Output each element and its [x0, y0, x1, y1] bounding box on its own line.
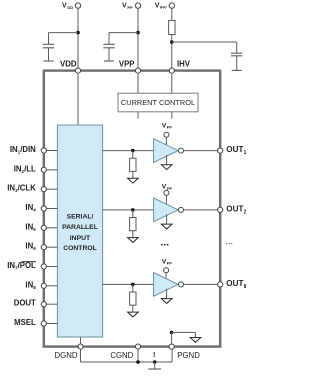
svg-text:PP: PP — [167, 261, 173, 266]
svg-text:V: V — [122, 3, 127, 10]
svg-text:IN5: IN5 — [25, 222, 36, 232]
svg-text:VDD: VDD — [60, 60, 77, 69]
svg-text:IHV: IHV — [160, 5, 167, 10]
svg-text:SERIAL/: SERIAL/ — [67, 213, 94, 220]
svg-text:V: V — [155, 2, 160, 9]
svg-text:OUT8: OUT8 — [226, 279, 246, 290]
svg-text:IHV: IHV — [177, 60, 191, 69]
svg-text:DD: DD — [67, 5, 73, 10]
svg-text:IN6: IN6 — [25, 242, 36, 252]
svg-text:PP: PP — [167, 186, 173, 191]
svg-text:CURRENT CONTROL: CURRENT CONTROL — [121, 98, 195, 107]
svg-text:DOUT: DOUT — [14, 299, 36, 308]
svg-text:!: ! — [153, 350, 156, 359]
svg-text:IN2/LL: IN2/LL — [14, 164, 36, 174]
svg-text:V: V — [62, 3, 67, 10]
svg-text:INPUT: INPUT — [70, 235, 91, 242]
svg-text:OUT1: OUT1 — [226, 145, 246, 156]
svg-text:DGND: DGND — [55, 351, 78, 360]
svg-text:PP: PP — [167, 125, 173, 130]
svg-text:CGND: CGND — [110, 351, 133, 360]
svg-text:IN1/DIN: IN1/DIN — [10, 145, 36, 155]
svg-text:PARALLEL: PARALLEL — [62, 224, 98, 231]
svg-text:IN8: IN8 — [25, 280, 36, 290]
svg-text:PGND: PGND — [177, 351, 200, 360]
svg-text:OUT2: OUT2 — [226, 204, 246, 215]
svg-text:IN3/CLK: IN3/CLK — [7, 184, 36, 194]
svg-text:MSEL: MSEL — [14, 318, 36, 327]
svg-text:VPP: VPP — [119, 60, 135, 69]
svg-text:CONTROL: CONTROL — [63, 245, 97, 252]
svg-text:IN7/POL: IN7/POL — [7, 261, 36, 271]
svg-text:IN4: IN4 — [25, 203, 36, 213]
svg-text:PP: PP — [127, 5, 133, 10]
